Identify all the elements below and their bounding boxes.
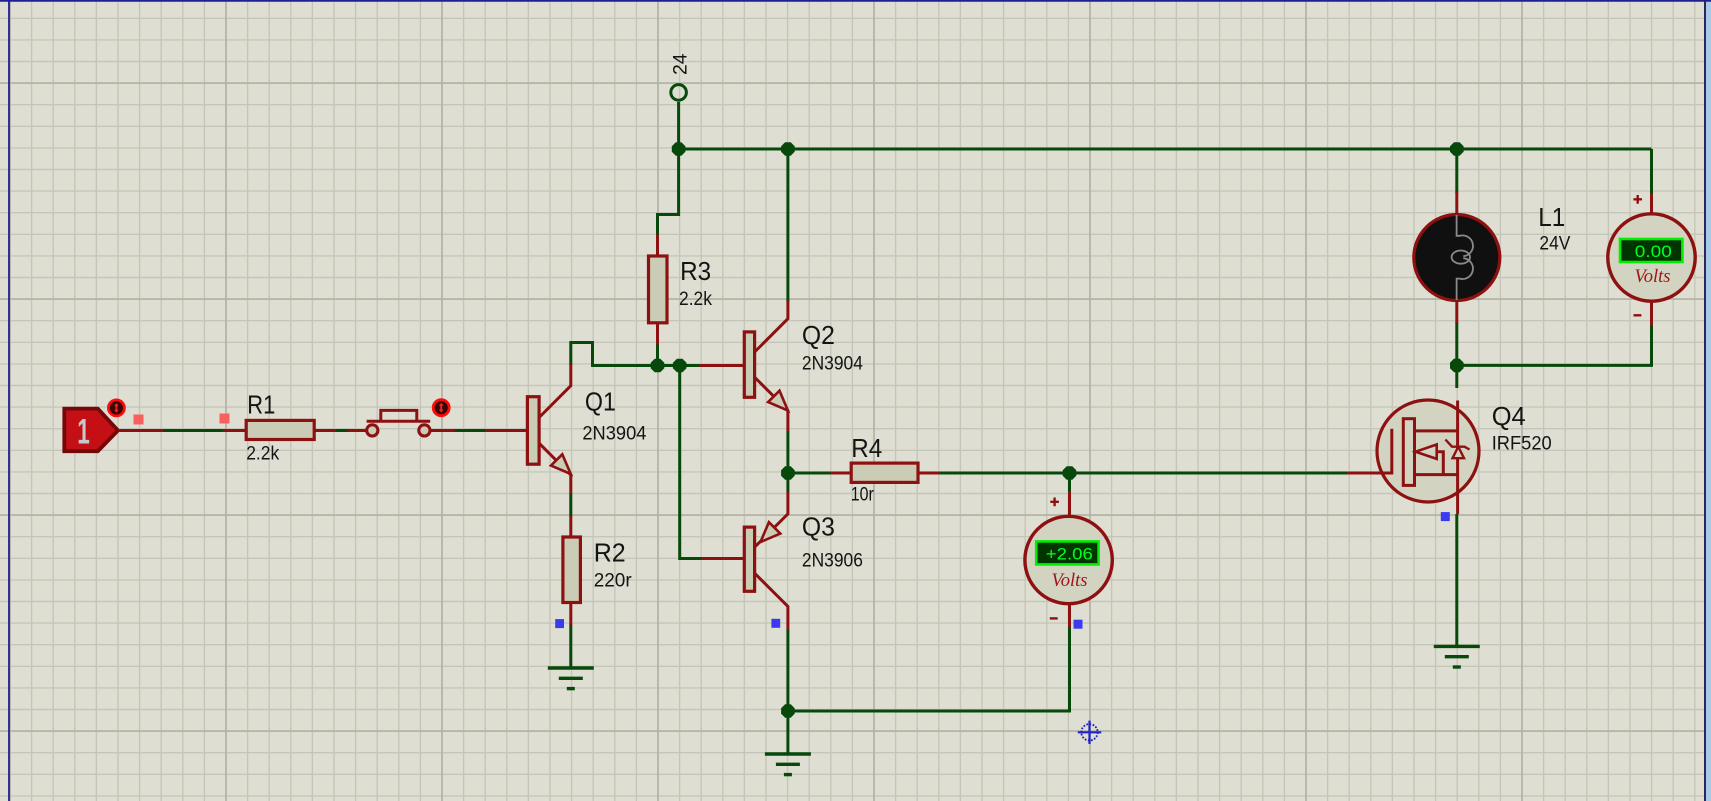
ground under Q4 <box>1434 646 1480 667</box>
voltmeter VM2 <box>1608 193 1695 326</box>
svg-text:R4: R4 <box>851 433 882 463</box>
svg-text:2N3904: 2N3904 <box>582 423 646 445</box>
junction: voltmeter plus node <box>1063 466 1077 480</box>
power terminal 24 <box>670 53 691 100</box>
junction: base node <box>673 359 687 373</box>
junction: bottom rail node <box>781 704 795 718</box>
svg-text:24: 24 <box>670 53 691 75</box>
ground at bottom rail <box>765 754 811 775</box>
svg-text:220r: 220r <box>594 570 632 592</box>
svg-text:2N3906: 2N3906 <box>802 549 863 571</box>
wire: node to R4 <box>788 472 832 475</box>
wire: supply terminal to rail <box>677 102 680 149</box>
junction: L1 bottom node <box>1450 359 1464 373</box>
resistor R1 pins <box>223 429 336 432</box>
transistor Q2 2N3904 <box>700 301 864 432</box>
switch right pin <box>431 429 455 432</box>
wire: R3 bottom to node <box>656 344 659 366</box>
wire: node down to Q3 base <box>680 366 703 559</box>
wire: rail to L1 <box>1455 149 1458 193</box>
wire: voltmeter2 minus to L1 bottom <box>1457 325 1652 365</box>
wire: Q2 emitter to Q3 emitter node <box>786 431 789 493</box>
svg-text:Volts: Volts <box>1635 266 1671 287</box>
wire: rail to R3 top <box>658 149 679 236</box>
wire: voltmeter minus to bottom rail <box>788 626 1070 711</box>
resistor R4 <box>851 433 918 506</box>
resistor R4 pins <box>831 472 941 475</box>
wire: R2 bottom to ground <box>569 624 572 667</box>
wire: Q3 collector to bottom node <box>786 629 789 711</box>
red state marker at switch <box>433 400 449 416</box>
wire: R1 to switch <box>334 429 348 432</box>
wire: switch to Q1 base <box>454 429 486 432</box>
wire: Q4 source to ground <box>1455 514 1458 646</box>
wire: node to Q2 base <box>680 364 701 367</box>
svg-text:0.00: 0.00 <box>1635 243 1672 261</box>
svg-text:1: 1 <box>77 412 90 451</box>
svg-text:+2.06: +2.06 <box>1046 546 1093 564</box>
red state marker at terminal <box>108 400 124 416</box>
resistor R2 <box>563 537 632 603</box>
svg-text:10r: 10r <box>851 484 874 506</box>
resistor R3 pins <box>656 235 659 345</box>
junction: R3 bottom node <box>651 359 665 373</box>
terminal pin <box>119 429 164 432</box>
input terminal 1 <box>64 409 118 452</box>
wire: node to Q1 collector <box>571 343 680 366</box>
junction: emitter/R4 node <box>781 466 795 480</box>
transistor Q1 2N3904 <box>485 364 647 494</box>
transistor Q3 2N3906 <box>702 492 863 630</box>
svg-text:Q4: Q4 <box>1492 401 1526 431</box>
voltmeter VM1 <box>1025 492 1112 628</box>
wire: rail corner to voltmeter2 <box>1650 149 1653 194</box>
wire: L1 to Q4 drain <box>1455 322 1458 388</box>
switch left pin <box>348 429 366 432</box>
svg-text:24V: 24V <box>1539 233 1570 255</box>
wire: bottom node to ground <box>786 711 789 753</box>
svg-text:2.2k: 2.2k <box>679 288 712 310</box>
svg-text:Q1: Q1 <box>585 387 616 417</box>
junction: rail at L1 <box>1450 142 1464 156</box>
blue origin crosshair <box>1078 721 1101 744</box>
wire: node to voltmeter plus <box>1068 473 1071 492</box>
wire: R4 to Q4 gate <box>939 472 1348 475</box>
pink probe square 2 <box>220 414 230 424</box>
svg-text:IRF520: IRF520 <box>1492 433 1552 455</box>
pink probe square 1 <box>134 415 144 425</box>
wire: +24V top rail <box>679 148 1652 151</box>
svg-text:R3: R3 <box>680 256 711 286</box>
wire: rail down to Q2 collector <box>786 149 789 302</box>
junction: rail at Q2 collector <box>781 142 795 156</box>
blue marker near Q3 <box>771 619 780 628</box>
switch SW1 <box>367 410 431 436</box>
lamp L1 24V <box>1414 192 1571 323</box>
wire: input terminal to R1 <box>162 429 223 432</box>
blue marker near R2 <box>555 619 564 628</box>
svg-text:Volts: Volts <box>1052 570 1088 591</box>
blue marker near VM1 <box>1074 620 1083 629</box>
wire: Q1 emitter to R2 <box>569 493 572 517</box>
resistor R1 <box>246 390 314 465</box>
svg-text:R2: R2 <box>594 538 626 568</box>
svg-text:2.2k: 2.2k <box>246 443 279 465</box>
svg-text:R1: R1 <box>247 390 275 420</box>
resistor R2 pins <box>569 516 572 625</box>
svg-text:L1: L1 <box>1538 202 1565 232</box>
svg-text:Q2: Q2 <box>802 320 835 350</box>
svg-text:2N3904: 2N3904 <box>802 353 863 375</box>
resistor R3 <box>649 256 713 323</box>
svg-text:Q3: Q3 <box>802 511 835 541</box>
mosfet Q4 IRF520 <box>1347 400 1552 514</box>
junction: rail at supply <box>672 142 686 156</box>
blue marker near Q4 <box>1441 512 1450 521</box>
ground under R2 <box>548 668 594 689</box>
